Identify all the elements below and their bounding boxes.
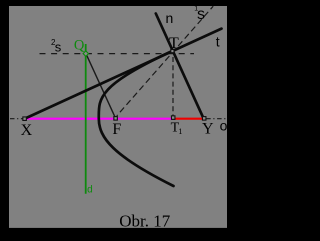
svg-text:Obr. 17: Obr. 17 bbox=[119, 211, 171, 230]
svg-text:1: 1 bbox=[194, 6, 198, 13]
svg-text:Q: Q bbox=[74, 37, 85, 53]
svg-text:Y: Y bbox=[202, 121, 214, 138]
svg-text:s: s bbox=[197, 6, 205, 23]
svg-text:n: n bbox=[166, 10, 174, 26]
svg-text:T: T bbox=[169, 35, 179, 52]
svg-text:1: 1 bbox=[178, 126, 182, 136]
svg-text:t: t bbox=[216, 34, 220, 50]
svg-text:o: o bbox=[220, 117, 228, 133]
svg-text:d: d bbox=[87, 184, 93, 195]
svg-text:2: 2 bbox=[51, 38, 56, 47]
svg-text:F: F bbox=[112, 121, 121, 138]
svg-text:X: X bbox=[21, 122, 33, 139]
svg-text:s: s bbox=[55, 40, 62, 55]
